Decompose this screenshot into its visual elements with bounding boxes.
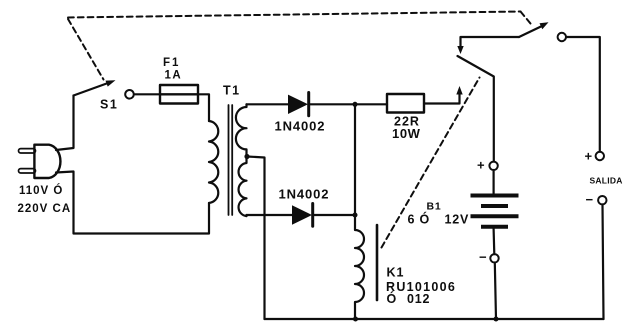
label B1 6 O 12V — [408, 201, 470, 227]
relay armature blade — [458, 56, 494, 162]
svg-text:220V CA: 220V CA — [18, 203, 72, 215]
switch S1 blade — [74, 83, 109, 96]
switch S1 contact — [125, 90, 134, 99]
wire minus terminal to bus — [495, 263, 496, 320]
relay K1 coil — [355, 215, 364, 319]
transformer T1 core — [229, 105, 233, 215]
wire node A to resistor — [355, 103, 387, 105]
wire battery to minus terminal — [493, 229, 496, 255]
transformer T1 secondary winding — [236, 104, 247, 216]
svg-text:F1: F1 — [163, 57, 180, 69]
relay NC contact wire — [461, 37, 520, 47]
resistor R1 body — [387, 94, 424, 113]
node battery-bus junction — [494, 317, 499, 322]
wire secondary top to diode D1 — [247, 103, 289, 105]
svg-text:K1: K1 — [387, 266, 405, 280]
wire plug bottom to transformer primary bottom — [56, 172, 209, 234]
relay K1 core bar — [376, 225, 379, 300]
wire resistor to NO contact arrow — [424, 94, 460, 104]
wire center tap to bottom bus — [247, 157, 265, 320]
dashed link relay to armature — [382, 78, 480, 248]
svg-text:1N4002: 1N4002 — [279, 187, 330, 202]
wire secondary bottom to diode D2 — [247, 214, 293, 216]
wire contact to salida plus — [566, 37, 600, 152]
label 110V o 220V CA — [18, 184, 72, 215]
svg-text:6 Ó: 6 Ó — [408, 212, 431, 227]
svg-text:T1: T1 — [223, 84, 241, 98]
svg-text:1N4002: 1N4002 — [275, 119, 326, 134]
label K1 RU101006 O 012 — [386, 266, 456, 306]
dashed link top horizontal — [68, 12, 521, 18]
battery plus terminal — [489, 162, 497, 170]
diode D1 1N4002 — [288, 93, 309, 116]
label F1 1A — [163, 57, 182, 82]
svg-text:12V: 12V — [445, 213, 470, 227]
bottom bus wire — [265, 318, 604, 320]
output switch blade — [519, 26, 542, 37]
svg-text:10W: 10W — [392, 126, 421, 141]
svg-text:1A: 1A — [165, 70, 183, 82]
switch S1 arrowhead — [106, 80, 116, 86]
wire terminal to battery — [493, 170, 495, 194]
svg-text:SALIDA: SALIDA — [590, 176, 623, 186]
ac plug P1 — [19, 145, 61, 178]
svg-text:+: + — [477, 158, 485, 173]
label 22R 10W — [392, 115, 421, 142]
battery minus terminal — [490, 254, 498, 262]
dashed link to S1 — [68, 19, 104, 80]
node A junction — [353, 102, 358, 107]
svg-text:110V Ó: 110V Ó — [19, 184, 63, 197]
output switch arrowhead — [540, 22, 549, 29]
wire S1 to fuse — [134, 93, 160, 95]
node center tap — [244, 154, 249, 159]
battery B1 plates — [471, 196, 519, 227]
salida plus terminal — [596, 152, 604, 160]
salida minus terminal — [598, 196, 606, 204]
svg-text:S1: S1 — [100, 98, 118, 112]
node relay-bus junction — [353, 317, 358, 322]
NO contact up arrowhead — [456, 86, 462, 95]
NC contact down arrowhead — [457, 46, 463, 54]
svg-text:−: − — [586, 192, 594, 207]
svg-text:−: − — [479, 250, 487, 265]
transformer T1 primary winding — [209, 121, 218, 203]
fuse F1 body — [160, 85, 198, 104]
svg-text:B1: B1 — [427, 201, 442, 213]
svg-text:+: + — [585, 149, 593, 164]
node B junction — [353, 213, 358, 218]
diode D2 1N4002 — [292, 204, 313, 227]
wire plug top to S1 — [56, 96, 74, 151]
svg-text:Ó: Ó — [387, 291, 397, 306]
dashed link to output switch — [521, 12, 534, 27]
wire node A down to diode D2 junction — [354, 104, 356, 215]
svg-text:012: 012 — [407, 292, 430, 306]
wire D1 to node A — [310, 103, 355, 105]
output switch contact — [558, 33, 566, 41]
wire D2 to node B — [314, 214, 355, 216]
wire salida minus to bus — [603, 205, 604, 320]
wire fuse to transformer primary top — [198, 94, 209, 121]
